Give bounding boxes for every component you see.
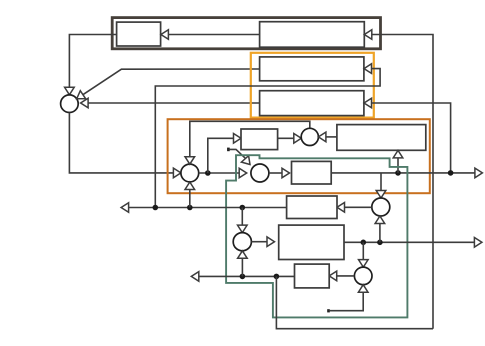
node at x190 on B4 output xyxy=(187,205,193,211)
wire B5 output to right output port xyxy=(344,241,474,243)
arrowhead into S3 left side xyxy=(294,134,302,144)
wire T1 output left then down to S1 xyxy=(69,35,116,88)
arrowhead down into S7 top xyxy=(359,260,369,268)
wire B4 output left to left output port xyxy=(129,207,287,209)
block A2 (inside amber box, lower) xyxy=(260,91,364,116)
node on B5 output at x380 xyxy=(377,240,383,246)
arrowhead into S1 right side xyxy=(81,98,89,108)
node at x242 on B4 output xyxy=(240,205,246,211)
arrowhead up into S7 bottom xyxy=(358,285,368,293)
summing junction S3 xyxy=(301,128,318,145)
subsystem box TOP (dark outer rectangle) xyxy=(112,18,380,49)
wire S1 output down then right to S2 xyxy=(69,113,173,173)
wire branch up into B2 bottom xyxy=(397,158,399,173)
wire B2 output to S3 right side xyxy=(326,136,337,138)
wire S5 output left to B4 xyxy=(345,206,372,208)
block T1 (top-left small block) xyxy=(117,22,161,46)
summing junction S4 xyxy=(251,164,269,182)
node on B3 output at x398 xyxy=(395,170,401,176)
wire B3 output to right output port xyxy=(331,172,475,174)
arrowhead up into B2 bottom xyxy=(393,150,403,158)
wire branch up from node to B1 xyxy=(208,138,234,173)
group box GREEN (teal polygon) xyxy=(226,155,407,317)
wire feedback loop up into A1 right edge xyxy=(155,69,380,208)
arrowhead up into S6 bottom xyxy=(238,251,248,258)
wire branch down into S6 top xyxy=(241,208,243,226)
output arrowhead right (upper) xyxy=(475,168,483,178)
arrowhead down into S2 top xyxy=(185,157,195,165)
arrowhead into T1 right edge xyxy=(161,30,169,40)
block B1 xyxy=(241,129,278,150)
block B2 (wide block right of S3) xyxy=(337,125,426,151)
node on B6 output at x242 xyxy=(240,274,246,280)
arrowhead into A1 right edge xyxy=(364,64,372,74)
wire from main line up into A2 right edge xyxy=(372,103,451,173)
arrowhead into A2 right edge xyxy=(364,98,372,108)
arrowhead into B4 right edge xyxy=(337,203,345,213)
node on B3 output at x450 xyxy=(448,170,454,176)
group box ORANGE-1 (upper amber rectangle) xyxy=(251,53,374,118)
summing junction S5 xyxy=(372,198,390,216)
stub wire with end tick into S7 bottom xyxy=(327,309,330,312)
arrowhead into B5 left edge xyxy=(267,237,275,247)
arrowhead up into S5 bottom xyxy=(375,216,385,224)
wire B1 output to S3 xyxy=(278,137,294,139)
arrowhead into B3 left edge xyxy=(282,168,290,178)
arrowhead into B6 right edge xyxy=(329,271,337,281)
block T2 (top-right wide block) xyxy=(260,22,365,48)
wire T2 to T1 xyxy=(168,34,259,36)
group box ORANGE-2 (middle burnt-orange rectangle) xyxy=(168,119,430,193)
arrowhead diagonal into S1 upper right xyxy=(77,91,86,99)
wire branch up into S6 bottom xyxy=(241,258,243,276)
arrowhead into S2 left side xyxy=(173,168,181,178)
arrowhead up into S2 bottom xyxy=(185,182,195,190)
block B4 xyxy=(287,196,337,219)
node at x155 on B4 output xyxy=(153,205,159,211)
wire branch down into S7 top xyxy=(362,242,364,259)
wire branch down into S5 top xyxy=(380,173,382,191)
output arrowhead right (lower) xyxy=(474,238,482,248)
arrowhead into S3 right side xyxy=(318,132,326,142)
wire big feedback loop down and right along bottom xyxy=(276,276,433,328)
summing junction S6 xyxy=(233,233,251,251)
block A1 (inside amber box, upper) xyxy=(260,57,364,81)
arrowhead down into S6 top xyxy=(238,225,248,233)
wire A1 output to S1 (horizontal then diagonal) xyxy=(83,69,260,95)
block B3 xyxy=(292,161,332,184)
arrowhead into S4 left side xyxy=(239,168,247,178)
wire S7 output left to B6 xyxy=(337,275,355,277)
output arrowhead left (upper) xyxy=(121,203,129,213)
wire branch up into S5 bottom xyxy=(379,224,381,243)
stub wire with end tick into S4 (diagonal) xyxy=(227,148,230,152)
node on B5 output at x363 xyxy=(361,240,367,246)
wire S6 output to B5 xyxy=(251,241,267,243)
arrowhead down into S1 top xyxy=(65,87,75,95)
arrowhead diagonal into S4 upper left xyxy=(241,156,250,165)
wire S3 top output looping left down into S2 top xyxy=(190,121,310,157)
arrowhead down into S5 top xyxy=(376,191,386,199)
block B5 (large lower block) xyxy=(279,225,344,259)
wire feedback from bottom loop into T2 right edge xyxy=(372,35,433,329)
block B6 xyxy=(295,264,330,288)
wire S4 output to B3 xyxy=(269,172,282,174)
arrowhead into B1 left edge xyxy=(234,134,242,144)
arrowhead into T2 right edge xyxy=(364,30,372,40)
summing junction S2 xyxy=(181,164,199,182)
wire A2 output to S1 right xyxy=(88,102,260,104)
wire S2 output right to S4 xyxy=(199,172,240,174)
node on S2 output xyxy=(205,170,211,176)
summing junction S1 xyxy=(61,95,79,113)
wire B6 output left to left output port xyxy=(199,275,295,277)
output arrowhead left (lower) xyxy=(191,272,199,282)
node on B6 output at x276 xyxy=(274,274,280,280)
summing junction S7 xyxy=(354,267,372,285)
wire branch up into S2 bottom xyxy=(189,190,191,208)
